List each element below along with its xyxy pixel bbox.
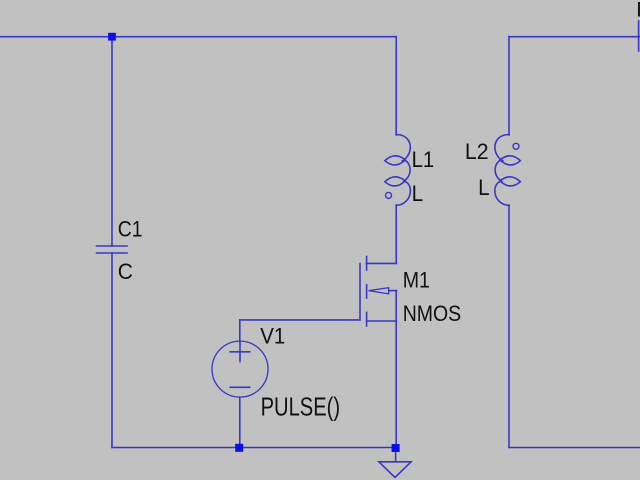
node junction J1 (108, 33, 116, 41)
svg-text:C1: C1 (118, 217, 143, 242)
capacitor C1 (97, 246, 128, 253)
node junction J3 (ground node) (392, 444, 400, 452)
node junction J2 (235, 444, 243, 452)
svg-text:L: L (412, 181, 424, 206)
svg-text:L: L (478, 175, 490, 200)
wire C1 upper vertical (111, 37, 113, 246)
wire L1 to drain (395, 205, 397, 263)
inductor L1 (385, 135, 411, 206)
wire bottom rail right (509, 447, 640, 449)
wire drain net vertical (top rail to L1) (395, 37, 397, 135)
svg-text:PULSE(): PULSE() (261, 392, 341, 422)
svg-text:C: C (118, 259, 133, 284)
wire top rail right (509, 36, 640, 38)
wire V1 bottom vertical (239, 397, 241, 447)
wire gate wire (240, 319, 360, 321)
svg-text:D: D (636, 0, 640, 21)
wire C1 lower vertical (111, 253, 113, 448)
wire L2 lower vertical (508, 205, 510, 448)
wire V1 top vertical (239, 320, 241, 341)
svg-text:V1: V1 (260, 324, 285, 349)
svg-text:L1: L1 (412, 147, 435, 172)
transistor M1 (NMOS) (360, 257, 396, 327)
svg-text:L2: L2 (465, 139, 489, 164)
wire right edge vertical stub (638, 21, 640, 51)
ground (379, 452, 411, 477)
wire source net vertical (395, 291, 397, 448)
wire bottom rail left (112, 447, 396, 449)
wire top rail left (0, 36, 396, 38)
inductor L2 (495, 135, 521, 206)
svg-text:NMOS: NMOS (403, 301, 462, 326)
wire L2 upper vertical (508, 37, 510, 135)
voltage source V1 (212, 341, 268, 397)
svg-text:M1: M1 (403, 267, 430, 292)
